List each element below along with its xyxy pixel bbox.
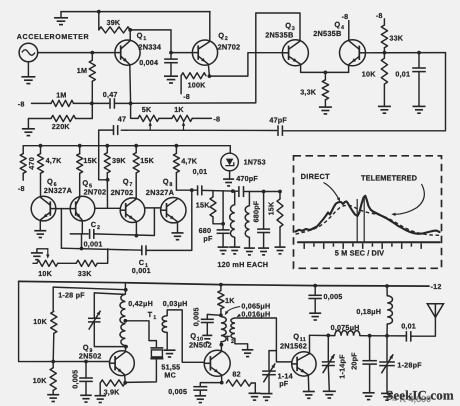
resistor 39K bbox=[99, 27, 130, 33]
wire Q7 emitter bbox=[135, 222, 137, 236]
resistor 3.3K bbox=[322, 72, 328, 106]
label 2N1562 bbox=[280, 342, 307, 351]
svg-text:2N1562: 2N1562 bbox=[280, 342, 307, 351]
wire Q4 emitter bbox=[348, 65, 350, 72]
label Q9 bbox=[83, 343, 93, 354]
wire 220K right riser bbox=[76, 103, 93, 118]
node Q7 emitter bbox=[135, 234, 139, 238]
wire 1-28b ground leg bbox=[386, 366, 388, 393]
label TELEMETERED bbox=[361, 174, 418, 183]
potentiometer 1K bbox=[172, 115, 192, 121]
svg-text:C: C bbox=[91, 220, 97, 229]
node inner line end bbox=[124, 288, 128, 292]
svg-text:10K: 10K bbox=[33, 376, 47, 385]
resistor 4.7K-a bbox=[38, 146, 44, 197]
svg-text:0,005: 0,005 bbox=[192, 307, 201, 326]
svg-text:33K: 33K bbox=[78, 269, 92, 278]
svg-text:-12: -12 bbox=[431, 282, 442, 291]
capacitor 47pF bbox=[278, 125, 282, 135]
ground under accelerometer bbox=[21, 77, 35, 84]
svg-text:1-14pF: 1-14pF bbox=[337, 354, 346, 379]
node Q8 collector link bbox=[190, 188, 194, 192]
transistor Q10 2N502 bbox=[204, 350, 230, 376]
svg-text:T: T bbox=[225, 334, 230, 343]
ground top-left bbox=[54, 12, 68, 25]
resistor 10K-4 bbox=[50, 362, 56, 395]
svg-text:82: 82 bbox=[232, 369, 240, 378]
capacitor C1 0.001 bbox=[142, 245, 146, 255]
label 33K top-right bbox=[389, 34, 403, 43]
ground under Q8 bbox=[172, 233, 184, 240]
wire 39K left riser bbox=[98, 12, 100, 30]
label -8 under 100K bbox=[183, 92, 190, 101]
label 2N535B (Q3) bbox=[265, 31, 293, 40]
label 1-28pF b bbox=[397, 361, 422, 370]
capacitor variable 1-14pF a bbox=[262, 351, 276, 383]
node 4.7K-b top bbox=[175, 144, 179, 148]
svg-text:1-28pF: 1-28pF bbox=[397, 361, 422, 370]
label -8 under 470 bbox=[18, 184, 25, 193]
wire Q9 collector bbox=[125, 347, 127, 352]
transistor Q6 2N327A bbox=[31, 196, 56, 221]
label ACCELEROMETER bbox=[17, 33, 89, 41]
svg-text:Q: Q bbox=[293, 332, 299, 341]
node Q2 base / 0.004 bbox=[169, 51, 173, 55]
resistor 4.7K-b bbox=[173, 146, 179, 191]
label 0.005 q10 bbox=[168, 387, 187, 396]
resistor 1M horizontal bbox=[51, 100, 74, 106]
ground under 15K-d bbox=[275, 247, 286, 254]
wire Q5 emitter drop bbox=[81, 234, 83, 249]
ground under coil1 bbox=[229, 247, 240, 254]
svg-text:Q: Q bbox=[137, 31, 143, 40]
node 680-a bbox=[221, 222, 225, 226]
label Q8 bbox=[163, 177, 173, 188]
wire Q3 emitter bbox=[301, 65, 349, 72]
node lower wire left bbox=[80, 247, 84, 251]
ground under 1-28b bbox=[381, 393, 393, 400]
label 220K bbox=[52, 122, 71, 131]
svg-text:470: 470 bbox=[27, 157, 36, 170]
svg-text:Q: Q bbox=[190, 332, 196, 341]
wire 1-14a to ground bbox=[268, 375, 270, 393]
svg-text:15K: 15K bbox=[140, 156, 154, 165]
node 33K/10K junction bbox=[383, 51, 387, 55]
wire Q5 emitter bbox=[81, 220, 83, 234]
wire output row bbox=[310, 334, 335, 336]
label 0.001 (C2) bbox=[84, 239, 103, 248]
svg-text:1-28 pF: 1-28 pF bbox=[58, 290, 85, 299]
node 15K-a top bbox=[78, 144, 82, 148]
label 0.075uH bbox=[331, 323, 360, 332]
label 10K top-right bbox=[362, 69, 376, 78]
label 47 bbox=[118, 114, 126, 123]
capacitor 0.005 q9 bbox=[79, 362, 93, 395]
ground under 0.005 q9 bbox=[80, 395, 92, 402]
label 39K-2 bbox=[112, 156, 126, 165]
label 3.3K bbox=[300, 88, 317, 97]
node 0.01 top bbox=[417, 51, 421, 55]
label C2 bbox=[91, 220, 100, 231]
node 15K-b top bbox=[134, 144, 138, 148]
capacitor 0.005 mid bbox=[201, 314, 221, 335]
capacitor 0.005 q10 bbox=[193, 387, 207, 396]
svg-text:0,03μH: 0,03μH bbox=[163, 299, 188, 308]
transistor Q8 2N327A bbox=[161, 198, 186, 223]
node 1K-2 bottom bbox=[219, 313, 223, 317]
label 0.005 q9 rotated bbox=[71, 370, 80, 389]
ground T1 secondary bbox=[164, 350, 176, 357]
svg-text:47pF: 47pF bbox=[269, 116, 287, 125]
wire tap to crystal bbox=[125, 321, 156, 348]
wire 1K to -8 bbox=[192, 117, 211, 119]
label 2N334 bbox=[138, 42, 161, 51]
label 1-14pF b rotated bbox=[337, 354, 346, 379]
svg-text:2: 2 bbox=[97, 225, 100, 231]
label 680 pF a bbox=[199, 226, 213, 243]
label 4.7K-b bbox=[181, 157, 198, 166]
wire accelerometer to Q1 base bbox=[38, 52, 115, 54]
label 1N753 bbox=[244, 158, 266, 167]
wire C2 right to Q8 riser bbox=[94, 208, 155, 235]
capacitor variable 1-28pF bbox=[88, 293, 101, 330]
svg-text:0,01: 0,01 bbox=[193, 167, 208, 176]
ground under 220K-left bbox=[22, 129, 35, 136]
svg-text:Q: Q bbox=[218, 31, 224, 40]
svg-text:15K: 15K bbox=[267, 201, 276, 215]
wire 47 cap left leg bbox=[99, 130, 114, 180]
resistor 10K top-right bbox=[381, 53, 387, 106]
resistor 82 bbox=[226, 380, 255, 393]
svg-text:2N502: 2N502 bbox=[79, 352, 102, 361]
ground under 680-a bbox=[218, 247, 229, 254]
resistor 220K bbox=[51, 115, 76, 121]
resistor 100K bbox=[181, 73, 206, 94]
svg-text:DIRECT: DIRECT bbox=[301, 172, 330, 181]
wire Q10 emitter to 0.005 bbox=[200, 383, 221, 387]
svg-text:2: 2 bbox=[225, 36, 228, 42]
svg-text:Q: Q bbox=[83, 343, 89, 352]
node Q1 emitter row bbox=[129, 102, 133, 106]
svg-text:10K: 10K bbox=[33, 317, 47, 326]
node 1M/0.47 bbox=[90, 102, 94, 106]
transistor Q11 2N1562 bbox=[292, 352, 316, 376]
capacitor 680pF-b bbox=[257, 192, 270, 248]
node Q10 collector bbox=[220, 343, 224, 347]
svg-text:15K: 15K bbox=[196, 201, 210, 210]
ground under 0.005 q10 bbox=[195, 396, 207, 403]
wire node to 0.47 bbox=[92, 102, 110, 104]
svg-text:470pF: 470pF bbox=[236, 174, 258, 183]
wire Q10 collector bbox=[220, 345, 222, 351]
wire Q8 emitter bbox=[177, 222, 179, 232]
svg-text:2N334: 2N334 bbox=[138, 42, 161, 51]
svg-text:0,005: 0,005 bbox=[168, 387, 187, 396]
svg-text:1N753: 1N753 bbox=[244, 158, 266, 167]
wire varcap to collector node bbox=[94, 322, 126, 347]
label 10K-3 bbox=[33, 317, 47, 326]
label 0.005 mid rotated bbox=[192, 307, 201, 326]
transistor Q3 2N535B bbox=[282, 40, 308, 66]
wire 33K riser bbox=[97, 249, 107, 263]
inductor coil1 120mH bbox=[230, 191, 235, 247]
wire lower link bbox=[61, 248, 142, 250]
capacitor 0.005 top-mid bbox=[308, 286, 322, 313]
label -8 above 33K bbox=[376, 11, 383, 20]
wire T2 secondary bottom bbox=[235, 339, 248, 350]
inductor coil2 120mH bbox=[245, 192, 249, 248]
label 51.55 MC bbox=[161, 363, 180, 380]
label Q2 bbox=[218, 31, 228, 42]
svg-text:5K: 5K bbox=[142, 105, 152, 114]
node 3.3K top bbox=[324, 71, 328, 75]
ground under 1-14b bbox=[323, 391, 336, 398]
capacitor 0.01 output bbox=[406, 331, 410, 342]
wire 220K left + ground bbox=[28, 119, 51, 129]
capacitor 0.01 top-right bbox=[412, 53, 426, 106]
svg-text:1K: 1K bbox=[225, 296, 235, 305]
resistor 1K-2 bbox=[218, 285, 224, 316]
svg-text:2N702: 2N702 bbox=[218, 42, 241, 51]
inductor T2 primary 0.065uH bbox=[221, 317, 226, 345]
svg-text:0,005: 0,005 bbox=[324, 292, 343, 301]
svg-text:1M: 1M bbox=[77, 66, 87, 75]
svg-text:0,47: 0,47 bbox=[103, 90, 118, 99]
node 1M top bbox=[90, 51, 94, 55]
capacitor 0.004 bbox=[164, 53, 178, 76]
ground under 0.01 top-right bbox=[413, 106, 426, 113]
label 0.03uH bbox=[163, 299, 188, 308]
node 1K-2 top bbox=[219, 283, 223, 287]
node coil tap bbox=[124, 319, 128, 323]
label 1K-2 bbox=[225, 296, 235, 305]
wire Q4 base to right bbox=[366, 52, 446, 54]
label 33K-2 bbox=[78, 269, 92, 278]
node 0.18uH top bbox=[385, 284, 389, 288]
svg-text:MC: MC bbox=[164, 370, 176, 379]
resistor 10K-3 bbox=[51, 311, 57, 361]
label 0.42uH bbox=[128, 299, 153, 308]
leader DIRECT bbox=[324, 183, 341, 202]
antenna bbox=[427, 304, 443, 318]
ground under 0.004 bbox=[164, 76, 178, 83]
svg-text:0,004: 0,004 bbox=[139, 58, 158, 67]
scope dashed trace (telemetered) bbox=[296, 205, 440, 235]
svg-text:T: T bbox=[148, 310, 153, 319]
wire output row b bbox=[360, 335, 407, 337]
svg-text:-8: -8 bbox=[18, 99, 25, 108]
node Q10 emitter bbox=[220, 381, 224, 385]
ground under 20pF bbox=[363, 393, 375, 400]
inductor 0.42uH bbox=[120, 283, 126, 347]
node 15K-d top bbox=[278, 190, 282, 194]
wire C2 left bbox=[70, 233, 88, 235]
wire Q3 collector loop bbox=[131, 13, 300, 103]
svg-text:-8: -8 bbox=[376, 11, 383, 20]
capacitor 680pF-a bbox=[217, 224, 230, 247]
label 470pF bbox=[236, 174, 258, 183]
ground 10K-pot wiper bbox=[31, 249, 48, 260]
wire to antenna bbox=[411, 317, 436, 336]
label 2N535B (Q4) bbox=[313, 29, 341, 38]
svg-text:0,016μH: 0,016μH bbox=[241, 310, 270, 319]
label 0.016uH bbox=[241, 310, 270, 319]
node 4.7K-a top bbox=[39, 144, 43, 148]
svg-text:20pF: 20pF bbox=[350, 352, 359, 370]
svg-text:2N702: 2N702 bbox=[84, 188, 107, 197]
ground under 10K top-right bbox=[378, 106, 391, 113]
svg-text:0,42μH: 0,42μH bbox=[128, 299, 153, 308]
label Q1 bbox=[137, 31, 147, 42]
svg-text:Q: Q bbox=[123, 177, 129, 186]
label 0.01 mid bbox=[193, 167, 208, 176]
svg-text:0,001: 0,001 bbox=[84, 239, 103, 248]
label 100K bbox=[188, 80, 207, 89]
wire Q2 emitter bbox=[208, 65, 209, 76]
ground under 1-14a bbox=[261, 394, 273, 401]
label 3.9K bbox=[104, 388, 121, 397]
node 1-14b bbox=[326, 334, 330, 338]
label 39K bbox=[107, 18, 121, 27]
label C1 bbox=[139, 258, 148, 269]
label 2N702 (Q7) bbox=[111, 188, 134, 197]
svg-text:1K: 1K bbox=[174, 105, 184, 114]
label Q3 bbox=[285, 21, 295, 32]
svg-text:ACCELEROMETER: ACCELEROMETER bbox=[17, 33, 89, 41]
wire node down to 5K bbox=[131, 103, 138, 118]
leader 0.016uH bbox=[237, 314, 241, 318]
svg-text:-8: -8 bbox=[213, 115, 220, 124]
wiper 1K bbox=[182, 122, 185, 131]
label 1-14 a bbox=[278, 372, 293, 389]
capacitor C2 0.001 bbox=[90, 229, 94, 239]
wire Q1-collector to Q2-base bbox=[130, 30, 192, 53]
scope baseline bbox=[298, 241, 440, 243]
ground under coil2 bbox=[244, 248, 255, 255]
wire 5K to 1K bbox=[159, 117, 172, 119]
wire 0.47 to Q1 emitter node bbox=[114, 102, 130, 104]
diode 1N753 bbox=[221, 146, 239, 179]
svg-text:pF: pF bbox=[203, 234, 213, 243]
label 15K-b bbox=[140, 156, 154, 165]
node base row b bbox=[84, 360, 88, 364]
ground under 3.3K bbox=[319, 107, 332, 114]
label Q5 bbox=[82, 178, 92, 189]
rail -12 bbox=[19, 281, 429, 286]
svg-text:Q: Q bbox=[163, 177, 169, 186]
resistor 33K-2 bbox=[76, 260, 97, 266]
svg-text:3,3K: 3,3K bbox=[300, 88, 317, 97]
label 1M vertical bbox=[77, 66, 87, 75]
svg-text:220K: 220K bbox=[52, 122, 71, 131]
svg-text:2: 2 bbox=[231, 339, 234, 345]
svg-text:0,18μH: 0,18μH bbox=[356, 307, 381, 316]
label 47pF bbox=[269, 116, 287, 125]
scope ticks bbox=[304, 243, 421, 249]
transistor Q2 2N702 bbox=[192, 40, 217, 65]
resistor 15K-c bbox=[210, 191, 223, 224]
label 5K bbox=[142, 105, 152, 114]
wire Q2 collector to top rail bbox=[209, 12, 211, 41]
svg-text:5 M SEC / DIV: 5 M SEC / DIV bbox=[335, 248, 384, 257]
wire Q9 emitter bbox=[124, 375, 127, 383]
label 15K-c bbox=[196, 201, 210, 210]
capacitor 470pF bbox=[239, 186, 244, 197]
label -12 bbox=[431, 282, 442, 291]
node 39K right bbox=[128, 28, 132, 32]
svg-text:0,001: 0,001 bbox=[132, 266, 151, 275]
wire 10K to 33K bbox=[58, 262, 76, 264]
wiper 5K bbox=[149, 122, 152, 131]
inductor T1 secondary 0.03uH bbox=[162, 310, 204, 362]
label 0.005 top-mid bbox=[324, 292, 343, 301]
svg-text:2N327A: 2N327A bbox=[146, 188, 175, 197]
transistor Q5 2N702 bbox=[70, 196, 95, 221]
svg-text:1: 1 bbox=[153, 315, 156, 321]
svg-text:4,7K: 4,7K bbox=[181, 157, 198, 166]
resistor 470 bbox=[20, 146, 26, 181]
node top rail / 39K bbox=[97, 10, 101, 14]
capacitor 0.47 bbox=[110, 98, 114, 109]
svg-text:≈ K 4,600: ≈ K 4,600 bbox=[392, 394, 431, 404]
svg-text:1: 1 bbox=[143, 36, 146, 42]
wire line3 to coil top bbox=[94, 293, 125, 295]
label 4.7K-a bbox=[46, 156, 63, 165]
node base row a bbox=[51, 360, 55, 364]
wire 1M to node bbox=[74, 102, 92, 104]
wire inner corner to 10K bbox=[52, 287, 54, 311]
resistor 15K-b bbox=[133, 146, 139, 199]
svg-text:10K: 10K bbox=[38, 269, 52, 278]
label 10K pot bbox=[38, 269, 52, 278]
node 680-b top bbox=[262, 190, 266, 194]
potentiometer 5K bbox=[138, 115, 159, 121]
svg-text:680pF: 680pF bbox=[251, 200, 260, 222]
label DIRECT bbox=[301, 172, 330, 181]
label Q7 bbox=[123, 177, 133, 188]
label 10K-4 bbox=[33, 376, 47, 385]
label 1K bbox=[174, 105, 184, 114]
label 5 M SEC/DIV bbox=[335, 248, 384, 257]
label 20pF rotated bbox=[350, 352, 359, 370]
label 120 mH EACH bbox=[217, 260, 268, 269]
wire Q6 emitter bbox=[39, 220, 41, 230]
node tank left bbox=[231, 189, 235, 193]
svg-text:0,01: 0,01 bbox=[401, 322, 416, 331]
source accelerometer bbox=[19, 43, 38, 62]
ground under 0.005 mid bbox=[202, 335, 212, 342]
node Q2 emitter / 100K bbox=[208, 74, 212, 78]
wire Q8 collector row bbox=[176, 189, 197, 191]
scope solid trace (direct) bbox=[296, 196, 440, 234]
svg-text:39K: 39K bbox=[112, 156, 126, 165]
scope dashed box bbox=[294, 156, 442, 268]
ground T2 secondary bbox=[242, 350, 254, 357]
wire crystal bottom to Q9 emitter bbox=[125, 360, 156, 383]
wire T1 secondary bottom bbox=[166, 333, 168, 350]
svg-text:Q: Q bbox=[285, 21, 291, 30]
label T1 bbox=[148, 310, 157, 321]
wire C1 right riser bbox=[146, 190, 192, 250]
capacitor variable 1-28pF b bbox=[379, 336, 395, 374]
transistor Q4 2N535B bbox=[340, 40, 366, 66]
svg-text:120 mH EACH: 120 mH EACH bbox=[217, 260, 268, 269]
wire accelerometer ground stem bbox=[27, 62, 29, 77]
wire Q4 collector to -8 bbox=[348, 21, 350, 41]
wire 0.01 to tank bbox=[202, 189, 238, 192]
node 39K2 lower tap bbox=[106, 178, 110, 182]
resistor 15K-a bbox=[77, 146, 83, 197]
